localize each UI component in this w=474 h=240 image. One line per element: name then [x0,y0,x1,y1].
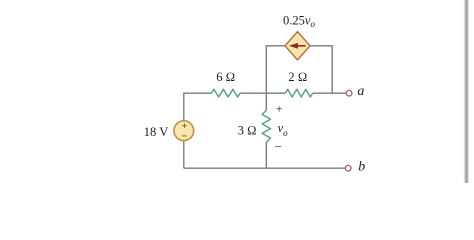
wire: dependent-source loop right run and right riser [310,46,332,93]
svg-text:b: b [358,159,365,174]
resistor R2 2-ohm (horizontal zigzag) [285,89,312,97]
resistor R1 6-ohm (horizontal zigzag) [212,89,241,97]
plus mark inside source [182,123,187,128]
terminal a (open circle) [346,90,352,96]
wire: middle branch below 3-ohm [265,142,267,168]
svg-text:a: a [357,84,364,99]
resistor R3 3-ohm (vertical zigzag) [262,110,270,142]
wire: middle branch above 3-ohm [265,93,267,110]
wire: dependent-source loop left riser and left run [266,46,285,93]
terminal b (open circle) [345,165,351,171]
svg-text:18 V: 18 V [144,125,168,139]
svg-text:3 Ω: 3 Ω [238,124,257,138]
dependent current source U1 (diamond) [285,32,310,60]
svg-text:6 Ω: 6 Ω [216,70,235,84]
minus mark inside source [182,135,187,137]
arrow inside dependent source (points left) [297,45,306,47]
svg-text:0.25vo: 0.25vo [283,13,315,29]
svg-text:+: + [276,101,283,115]
wire: left vertical + top-left lead to 6-ohm [184,93,212,168]
page margin rule (right edge) [464,0,470,183]
wire: bottom run to terminal b [184,167,345,169]
svg-text:vo: vo [278,121,289,138]
wire: 2-ohm to terminal a [313,92,346,94]
voltage source V1 18V (circle) [174,121,194,141]
wire: between 6-ohm and 2-ohm [240,92,285,94]
svg-text:2 Ω: 2 Ω [288,70,307,84]
svg-text:–: – [274,138,282,152]
